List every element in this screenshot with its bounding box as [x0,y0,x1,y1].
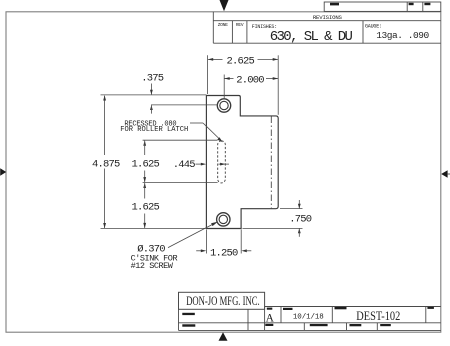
svg-text:1.625: 1.625 [132,158,160,170]
bottom row labels scale / release date / weight / sheet [265,324,391,327]
size label [267,308,273,310]
fold mark top [220,0,229,11]
ext slot bottom [143,182,218,184]
bottom screw hole inner [219,215,227,223]
ext plate bottom left [101,227,207,229]
strike plate outline [206,96,278,229]
ext hole center up [223,75,225,100]
revisions table lines [213,12,440,43]
ext lip right up [277,55,279,115]
svg-text:4.875: 4.875 [92,158,120,170]
svg-text:GAUGE:: GAUGE: [365,24,382,30]
top screw hole outer [217,99,230,112]
recessed slot (hidden dashed) [218,141,226,183]
recess note leader [190,123,220,139]
svg-text:DON-JO MFG. INC.: DON-JO MFG. INC. [186,294,260,308]
part no label [335,307,347,309]
svg-text:.445: .445 [173,159,196,171]
svg-text:2.000: 2.000 [236,75,264,87]
svg-text:2.625: 2.625 [227,56,255,68]
extension lines [101,55,303,253]
dimension 1.250 [196,248,251,260]
ext plate left up [207,55,209,94]
svg-text:.375: .375 [141,73,164,85]
svg-text:.750: .750 [289,214,312,226]
dimension 1.625 lower [132,183,160,229]
svg-text:DEST-102: DEST-102 [356,308,400,323]
ext plate top left [101,94,207,96]
svg-text:630, SL & DU: 630, SL & DU [270,29,353,45]
title block lines [179,307,441,331]
top strip box [324,2,441,11]
svg-text:#12 SCREW: #12 SCREW [131,261,174,271]
dimension .445 [173,159,229,171]
dimension .750 [289,200,312,237]
svg-text:13ga. .090: 13ga. .090 [376,30,429,41]
dimension 2.625 [208,56,278,68]
countersink leader [168,224,214,248]
ext lip bottom right [280,208,303,210]
svg-text:1.625: 1.625 [132,202,160,214]
svg-text:REVISIONS: REVISIONS [313,14,343,21]
title block: company box [179,292,265,309]
tolerance tiny labels [182,313,195,327]
dimension 2.000 [224,75,278,87]
top strip tiny labels [330,3,430,6]
bend centerline (dash-dot) [270,117,272,209]
ext slot top [143,139,218,141]
date label [283,308,293,310]
fold mark left [0,168,6,176]
svg-text:10/1/18: 10/1/18 [293,314,324,322]
svg-text:A: A [266,312,275,324]
ext hole center left [151,104,218,106]
svg-text:ZONE: ZONE [218,22,229,28]
ext 1.250 right [240,230,242,254]
dimension .375 [141,73,164,114]
top screw hole inner [220,101,228,109]
ext plate bottom right [243,227,303,229]
bottom screw hole outer [217,213,230,226]
ext 1.250 left [205,230,207,254]
dimension 1.625 upper [132,140,160,182]
svg-text:FOR ROLLER LATCH: FOR ROLLER LATCH [120,126,188,134]
rev label [427,307,434,309]
fold mark right [441,170,450,177]
svg-text:1.250: 1.250 [210,248,238,260]
fold mark bottom [219,332,228,341]
dimension 4.875 [92,95,120,228]
svg-text:REV: REV [236,22,244,28]
